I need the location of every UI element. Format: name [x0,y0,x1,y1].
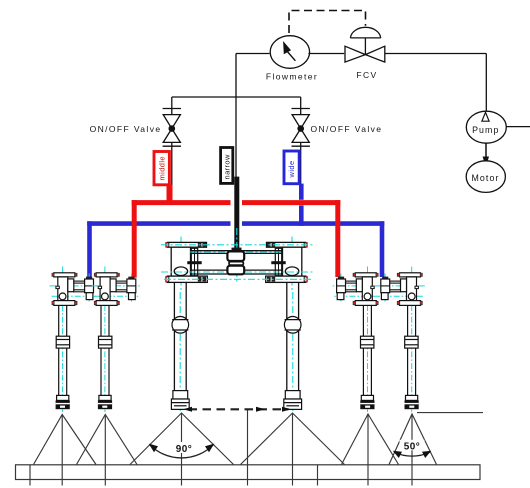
motor M1 [466,161,505,193]
truss T5 legs [342,414,399,465]
truss T4 legs [241,413,345,465]
svg-text:middle: middle [157,156,166,181]
nozzle assembly inner-left [92,267,140,413]
truss verticals [29,465,31,486]
tag box middle (red) [154,152,169,185]
center assembly right half [266,237,308,413]
wire main line left of flowmeter [236,53,270,55]
wire red right drop to inner-right nozzle [335,200,340,277]
wire blue bus left segment [87,221,230,226]
nozzle assembly outer-right (mirrored) [377,267,425,413]
wire main drop to narrow branch [235,54,237,178]
center assembly left half [165,237,207,413]
truss T6 legs [389,414,437,465]
wire blue right drop to outer-right nozzle [380,221,385,277]
svg-text:Flowmeter: Flowmeter [266,72,318,82]
pump P1 [466,111,530,143]
rails between columns [191,251,283,274]
wire header line to on/off valves [172,96,301,98]
wire blue stub from wide box [299,184,304,200]
wire red left drop to inner-left nozzle [132,200,137,278]
svg-text:Motor: Motor [472,173,500,183]
wire red bus left segment [132,200,231,205]
tag box wide (blue) [284,151,299,184]
center nozzle pair [227,248,244,275]
control valve FCV [345,27,385,62]
svg-text:FCV: FCV [356,70,377,80]
wire red bus right segment [242,200,340,205]
wire black feed from narrow box to center nozzle [234,177,239,250]
wire down to pump [485,54,487,112]
90 degree arc [149,442,215,458]
svg-text:ON/OFF Valve: ON/OFF Valve [90,124,162,134]
truss T3 legs [130,413,234,465]
truss T1 legs [34,415,97,465]
nozzle assembly inner-right (mirrored) [333,267,381,413]
wire blue stub below red crossing [299,205,304,225]
cyan horizontal centerlines [161,245,315,279]
wire red stub from middle box [167,185,173,203]
side line from T6 apex [417,412,483,414]
on/off valve V1 (left) [163,97,181,185]
wire blue left drop to outer-left nozzle [87,221,92,278]
control signal dashed line flowmeter to FCV [289,11,366,34]
flowmeter FM [266,36,318,82]
dimension line between T3 and T4 [183,407,291,412]
svg-text:ON/OFF Valve: ON/OFF Valve [311,124,383,134]
svg-text:wide: wide [287,160,296,178]
truss T2 legs [77,415,138,465]
svg-text:50°: 50° [404,441,421,452]
svg-text:90°: 90° [176,444,193,455]
base plate [16,465,481,480]
on/off valve V2 (right) [292,97,310,184]
svg-text:narrow: narrow [223,154,232,180]
nozzle assembly outer-left [50,267,98,413]
wire blue bus right segment [242,221,384,226]
tag box narrow (black) [221,148,233,184]
svg-text:Pump: Pump [472,125,499,135]
50 degree arc [393,440,431,458]
pump to motor arrow [483,143,489,167]
wire FCV to pump corner [385,53,487,55]
wire flowmeter to FCV [308,53,344,55]
center cyan axis [236,228,238,284]
